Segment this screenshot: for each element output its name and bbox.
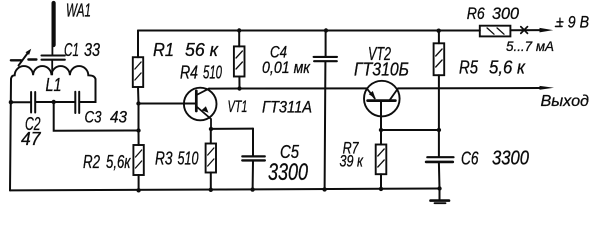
svg-text:L1: L1 bbox=[46, 75, 62, 95]
output arrowhead bbox=[540, 86, 555, 90]
svg-text:C6: C6 bbox=[461, 149, 479, 169]
svg-text:WA1: WA1 bbox=[66, 1, 91, 21]
svg-text:56 к: 56 к bbox=[185, 40, 219, 60]
svg-text:5,6к: 5,6к bbox=[106, 152, 132, 172]
node C4 top on rail bbox=[324, 28, 328, 32]
node R5 top on rail bbox=[437, 29, 441, 33]
capacitor C2 bbox=[31, 92, 35, 113]
node C6 bottom / ground bbox=[437, 186, 441, 190]
wire left rail bbox=[10, 79, 11, 190]
svg-text:300: 300 bbox=[492, 4, 520, 23]
node C6 branch top bbox=[437, 128, 441, 132]
capacitor C4 bbox=[314, 31, 337, 190]
wire C2 to C3 bbox=[36, 101, 75, 103]
svg-text:C1: C1 bbox=[64, 40, 79, 60]
label C4 0,01 мк bbox=[262, 43, 311, 78]
svg-text:5,6 к: 5,6 к bbox=[489, 58, 526, 78]
resistor R6 bbox=[480, 26, 511, 37]
node R2 top bbox=[136, 128, 140, 132]
node VT1 emitter junction bbox=[209, 127, 213, 131]
node C2/C3 junction bbox=[52, 100, 56, 104]
wire C2/C3 junction down and right to base node bbox=[54, 102, 139, 131]
svg-text:C3: C3 bbox=[85, 108, 102, 127]
svg-text:33: 33 bbox=[84, 40, 100, 60]
svg-text:R2: R2 bbox=[83, 152, 100, 172]
svg-text:R4: R4 bbox=[180, 63, 198, 83]
label R2 5,6к bbox=[83, 152, 132, 172]
node C5 bottom bbox=[250, 187, 254, 191]
wire base junction to C6 branch bbox=[381, 129, 439, 131]
svg-text:R6: R6 bbox=[467, 4, 485, 23]
wire bottom rail bbox=[10, 189, 440, 191]
current break cross bbox=[521, 27, 528, 34]
resistor R7 bbox=[376, 130, 387, 189]
label C6 3300 bbox=[461, 148, 529, 170]
wire top rail bbox=[138, 30, 480, 32]
label R7 39 к bbox=[340, 139, 364, 171]
transistor VT2 bbox=[364, 81, 400, 130]
svg-text:39 к: 39 к bbox=[340, 152, 364, 171]
inductor L1 bbox=[11, 66, 96, 80]
svg-text:43: 43 bbox=[110, 108, 127, 127]
antenna WA1 bbox=[52, 3, 53, 55]
resistor R4 bbox=[234, 31, 245, 89]
svg-text:3300: 3300 bbox=[492, 148, 529, 170]
resistor R5 bbox=[434, 31, 445, 130]
capacitor C5 bbox=[242, 129, 264, 190]
label VT2 ГТ310Б bbox=[354, 44, 409, 80]
wire emitter junction to C5 bbox=[211, 128, 253, 130]
label R1 56 к bbox=[153, 40, 219, 60]
resistor R2 bbox=[133, 131, 143, 191]
wire VT1 collector to R4 node bbox=[209, 88, 240, 90]
svg-text:510: 510 bbox=[178, 149, 199, 169]
node R4 bottom / collector bbox=[237, 86, 241, 90]
node R3 bottom bbox=[209, 188, 213, 192]
svg-text:0,01 мк: 0,01 мк bbox=[262, 58, 311, 77]
capacitor C1 (variable) bbox=[42, 56, 65, 75]
svg-text:3300: 3300 bbox=[268, 159, 308, 186]
node C4 bottom bbox=[322, 187, 326, 191]
svg-text:47: 47 bbox=[21, 129, 41, 149]
node VT2 base junction bbox=[379, 128, 383, 132]
svg-text:R5: R5 bbox=[459, 58, 479, 78]
label VT1 ГТ311А bbox=[228, 97, 313, 117]
node left rail / C2 bbox=[9, 100, 13, 104]
label C3 43 bbox=[85, 108, 128, 127]
svg-text:Выход: Выход bbox=[541, 93, 590, 110]
wire underline mark at +9V bbox=[556, 25, 563, 27]
node R4 top on rail bbox=[237, 28, 241, 32]
+9V arrowhead bbox=[540, 28, 554, 33]
wire R6 to +9V arrow bbox=[510, 29, 541, 31]
variable-capacitor arrow of C1 bbox=[11, 49, 37, 66]
svg-text:R1: R1 bbox=[153, 40, 174, 60]
node R2 bottom bbox=[136, 188, 140, 192]
label C2 47 bbox=[21, 114, 41, 149]
wire base lead VT1 bbox=[139, 103, 196, 105]
transistor VT1 bbox=[184, 88, 217, 129]
wire VT2 collector to output bbox=[398, 87, 541, 89]
svg-text:ГТ311А: ГТ311А bbox=[262, 98, 312, 117]
wire left rail to C2 bbox=[11, 101, 31, 103]
svg-text:+ 9 В: + 9 В bbox=[556, 13, 590, 32]
capacitor C6 bbox=[426, 130, 453, 189]
label R6 300 bbox=[467, 4, 520, 23]
resistor R1 bbox=[133, 31, 143, 104]
svg-text:ГТ310Б: ГТ310Б bbox=[354, 60, 409, 80]
wire base node down bbox=[138, 104, 140, 131]
label R5 5,6 к bbox=[459, 58, 526, 78]
svg-text:5...7 мА: 5...7 мА bbox=[506, 38, 554, 54]
resistor R3 bbox=[206, 129, 216, 190]
svg-text:VT1: VT1 bbox=[228, 97, 248, 116]
wire C3 to coil right end bbox=[80, 79, 96, 102]
capacitor C3 bbox=[75, 92, 79, 113]
ground bbox=[431, 189, 450, 204]
label C1 33 bbox=[64, 40, 100, 60]
label C5 3300 bbox=[268, 142, 308, 186]
node base of VT1 bbox=[136, 101, 140, 105]
label R3 510 bbox=[155, 149, 199, 169]
svg-text:510: 510 bbox=[203, 63, 222, 83]
svg-text:R3: R3 bbox=[155, 149, 173, 169]
wire collector node to VT2 emitter bbox=[240, 87, 367, 89]
label R4 510 bbox=[180, 63, 222, 83]
node R7 bottom bbox=[379, 187, 383, 191]
